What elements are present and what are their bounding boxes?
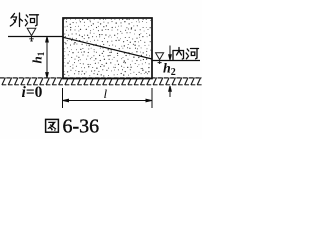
outer water level symbol	[27, 28, 36, 41]
inner water level symbol	[156, 53, 164, 64]
内	[172, 51, 174, 60]
svg-text:l: l	[104, 86, 108, 101]
caption 图 6-36	[46, 119, 59, 132]
h2 bottom arrow	[169, 86, 172, 97]
图	[46, 119, 59, 132]
外	[11, 14, 15, 19]
label 内河	[173, 48, 199, 60]
outer river water line	[8, 36, 63, 38]
l dimension line with arrows	[63, 99, 152, 102]
h2 top arrow	[169, 46, 172, 61]
embankment stipple texture	[63, 19, 151, 77]
label 外河	[10, 13, 38, 27]
河	[187, 49, 189, 51]
svg-text:i=0: i=0	[22, 84, 43, 101]
l dimension extension lines	[62, 88, 64, 108]
h1 dimension line	[46, 37, 49, 78]
河	[26, 15, 28, 17]
svg-text:6-36: 6-36	[63, 116, 100, 138]
embankment block outline	[63, 18, 152, 79]
inner river water line	[152, 60, 200, 62]
seepage phreatic line	[63, 37, 152, 59]
impervious base hatch band	[0, 78, 208, 86]
